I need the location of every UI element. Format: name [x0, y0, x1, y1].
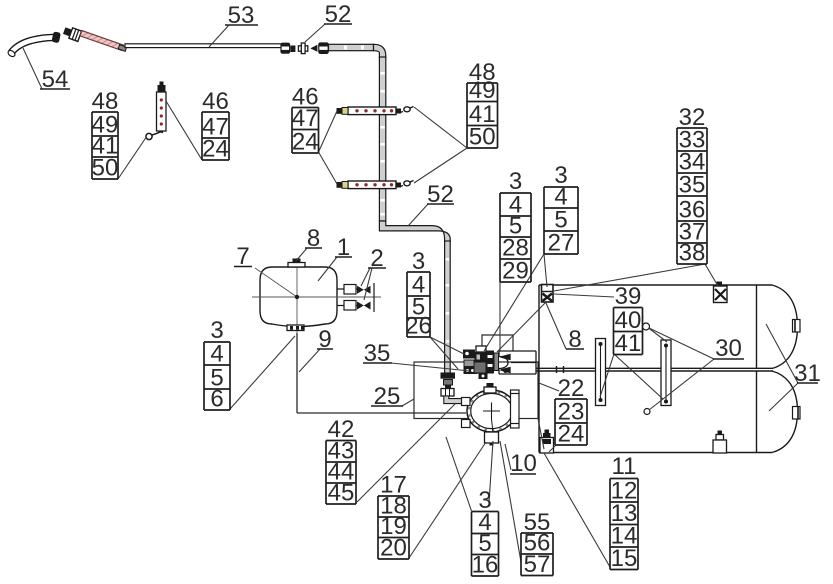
- leader 41a: [600, 354, 614, 397]
- pump mounting frame 25: [414, 362, 538, 419]
- leader 26b: [430, 337, 458, 369]
- svg-text:49: 49: [469, 77, 496, 104]
- vertical pipe lower run to pump: [445, 241, 451, 373]
- label 7: [234, 243, 252, 270]
- svg-text:10: 10: [510, 450, 537, 477]
- svg-text:24: 24: [292, 129, 319, 156]
- label 54: [40, 66, 70, 93]
- leader 26a: [430, 337, 464, 354]
- leader 22: [539, 383, 559, 391]
- leader 25: [402, 399, 414, 406]
- upper pump box: [482, 335, 513, 351]
- svg-text:57: 57: [524, 551, 551, 578]
- tank cap tabs: [793, 320, 801, 420]
- label stack 3/4/5/26: [407, 272, 430, 337]
- svg-text:50: 50: [469, 124, 496, 151]
- label stack 42-45: [326, 441, 356, 505]
- leader 2a: [361, 268, 370, 286]
- label 35: [363, 340, 392, 367]
- label stack 3/4/5/6: [204, 342, 230, 410]
- svg-text:26: 26: [405, 313, 432, 340]
- label stack 3/4/5/28/29: [500, 193, 531, 282]
- leader 1: [318, 257, 337, 281]
- svg-text:46: 46: [202, 88, 229, 115]
- label 8 tank: [566, 326, 584, 353]
- hopper center lines: [252, 258, 381, 334]
- svg-text:24: 24: [558, 421, 585, 448]
- hook nozzle 48/50 left: [146, 132, 163, 140]
- svg-text:11: 11: [612, 453, 637, 480]
- label 30: [713, 335, 744, 362]
- label stack 3/4/5/16: [472, 512, 499, 577]
- leader 16a: [446, 437, 472, 511]
- leader 48-50 left to hook: [118, 138, 146, 180]
- leader 15 to fitting: [544, 453, 610, 567]
- leader 38 long: [554, 264, 705, 291]
- hopper outlet valves 2: [337, 283, 374, 312]
- leader 54: [23, 48, 70, 89]
- pump and valve cluster 35: [463, 346, 499, 379]
- leader 27 to pump: [484, 254, 544, 351]
- label stack 3/4/5/27: [544, 187, 578, 254]
- label 25: [371, 383, 403, 410]
- svg-text:27: 27: [548, 230, 575, 257]
- leader 8 hopper: [296, 248, 307, 261]
- leader frame to fitting: [538, 419, 544, 450]
- leader hose pump to valve: [497, 302, 546, 352]
- label stack 32-38: [677, 128, 707, 264]
- label 9: [317, 326, 333, 353]
- leader 31b: [769, 383, 798, 411]
- hose from coupler to down pipe: [329, 44, 386, 58]
- leader 30a: [649, 328, 714, 359]
- label stack 48/49/41/50 right: [467, 83, 498, 148]
- svg-text:45: 45: [328, 480, 355, 507]
- svg-text:6: 6: [210, 386, 223, 413]
- svg-text:50: 50: [92, 155, 119, 182]
- tank bottom left fitting: [540, 430, 554, 454]
- blower right bracket: [511, 390, 520, 428]
- blower bottom box: [485, 432, 499, 443]
- leader 52 top: [305, 24, 325, 42]
- pump bracket plate: [499, 351, 536, 374]
- hose 53 thin tube: [125, 44, 282, 48]
- svg-text:29: 29: [502, 258, 529, 285]
- label stack 48/49/41/50 left: [92, 112, 118, 179]
- leader 48 right upper: [414, 107, 467, 148]
- label 1: [335, 234, 352, 261]
- divider coupler ticks: [556, 366, 565, 373]
- leader 16b: [489, 441, 493, 503]
- hopper top fitting 8: [288, 259, 305, 268]
- label 31: [794, 360, 821, 387]
- leader gauge to 46 left: [166, 101, 202, 160]
- svg-text:30: 30: [715, 335, 742, 362]
- tank body lower 31: [539, 371, 798, 453]
- label 8 hopper: [305, 225, 322, 252]
- leader 48 right lower: [414, 148, 467, 183]
- svg-text:41: 41: [615, 330, 642, 357]
- leader 38 to valve: [705, 264, 718, 286]
- blower left tabs: [462, 398, 471, 428]
- svg-text:38: 38: [679, 240, 706, 267]
- leader 40 circle to bar: [649, 328, 668, 342]
- blower housing 10: [467, 390, 516, 440]
- leader 52 mid: [408, 204, 428, 226]
- label stack 22/23/24: [555, 399, 587, 445]
- leader 9: [299, 349, 320, 372]
- leader 46 right lower: [319, 152, 338, 184]
- leader 6 to fitting: [230, 336, 295, 409]
- blower top fitting: [484, 383, 496, 393]
- svg-text:20: 20: [380, 535, 407, 562]
- label 52 top: [324, 1, 352, 28]
- label 10: [510, 450, 537, 477]
- coupler 52 top: [281, 43, 328, 54]
- label 2: [368, 245, 386, 272]
- leader 30b: [649, 359, 714, 410]
- nozzle body 46/47 left: [157, 82, 167, 132]
- label stack 46/47/24 left: [202, 112, 229, 160]
- spray bar lower: [337, 181, 414, 189]
- vertical pipe 52 upper run: [379, 57, 385, 221]
- pipe fittings below pump on riser: [441, 373, 465, 404]
- spray gun handle 54: [7, 32, 60, 58]
- label stack 11-15: [610, 479, 638, 570]
- leader 41b: [614, 354, 663, 399]
- leader 8 tank: [546, 303, 566, 349]
- label stack 46/47/24 right: [292, 108, 319, 154]
- leader 53: [209, 25, 229, 47]
- svg-text:39: 39: [615, 283, 642, 310]
- label stack 39/40/41: [614, 308, 643, 355]
- label 53: [225, 2, 258, 29]
- leader 46 right upper: [319, 111, 338, 152]
- gun inlet fitting: [62, 25, 81, 41]
- leader 55: [500, 441, 521, 562]
- leader 24 to fitting: [549, 445, 556, 452]
- tank bottom right fitting: [713, 431, 727, 454]
- tank level gauge right 41: [661, 340, 671, 406]
- leader 10: [505, 444, 511, 470]
- leader 35: [391, 363, 470, 371]
- lance 53 hatched tube: [80, 31, 126, 52]
- tank top right valve: [714, 282, 728, 303]
- leader 39: [554, 294, 614, 297]
- label stack 17-20: [378, 496, 409, 559]
- svg-text:4: 4: [210, 341, 223, 368]
- small circle node 40: [643, 323, 650, 330]
- leader 31a: [766, 324, 798, 383]
- svg-text:15: 15: [611, 545, 638, 572]
- tank body upper 30: [537, 285, 798, 453]
- svg-text:16: 16: [472, 552, 499, 579]
- tank top left valve: [542, 285, 554, 303]
- leader 28-29 down: [499, 282, 501, 351]
- pipe jog to the right: [379, 221, 450, 242]
- leader 2b: [364, 268, 372, 300]
- hopper tank 1: [260, 267, 337, 327]
- spray bar upper: [337, 107, 414, 115]
- svg-text:24: 24: [202, 136, 229, 163]
- small circle node lower: [644, 409, 650, 415]
- hopper bottom fitting: [287, 325, 304, 331]
- label 52 mid: [427, 181, 454, 208]
- leader 20: [409, 442, 486, 558]
- label stack 55/56/57: [521, 533, 553, 576]
- hopper outlet pipe 9: [297, 333, 466, 413]
- tank level gauge left 41: [596, 339, 606, 406]
- leader 27 to valve: [544, 254, 547, 287]
- leader 45: [357, 403, 456, 502]
- svg-text:35: 35: [679, 172, 706, 199]
